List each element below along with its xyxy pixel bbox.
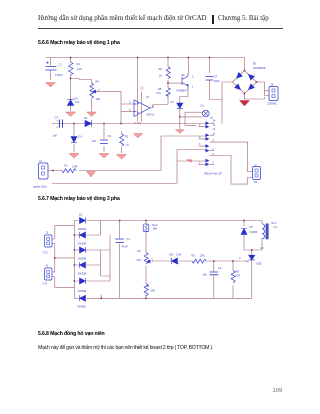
svg-text:DIODE: DIODE bbox=[78, 257, 86, 261]
svg-text:R2: R2 bbox=[125, 135, 129, 139]
svg-text:3: 3 bbox=[239, 256, 241, 260]
svg-text:R6: R6 bbox=[159, 67, 163, 71]
svg-text:470: 470 bbox=[236, 274, 241, 278]
svg-text:R2: R2 bbox=[192, 254, 196, 258]
svg-text:D7: D7 bbox=[250, 225, 254, 229]
svg-text:22K: 22K bbox=[200, 254, 205, 258]
svg-text:Q9: Q9 bbox=[181, 73, 185, 77]
svg-text:5: 5 bbox=[213, 162, 215, 165]
svg-text:470uF: 470uF bbox=[55, 73, 63, 77]
svg-text:220VAC: 220VAC bbox=[268, 102, 278, 106]
svg-text:CT2: CT2 bbox=[43, 251, 48, 255]
svg-text:RL1: RL1 bbox=[272, 221, 277, 225]
svg-text:J1: J1 bbox=[39, 159, 42, 163]
svg-text:W+5V: W+5V bbox=[134, 121, 141, 125]
svg-text:Tải: Tải bbox=[254, 180, 258, 184]
svg-text:J6: J6 bbox=[271, 83, 274, 87]
svg-text:CAU8000E: CAU8000E bbox=[253, 66, 266, 70]
svg-text:R5: R5 bbox=[158, 87, 162, 91]
svg-text:R4: R4 bbox=[137, 249, 141, 253]
svg-text:501: 501 bbox=[137, 258, 142, 262]
svg-text:F3: F3 bbox=[218, 266, 222, 270]
svg-text:3.3R: 3.3R bbox=[72, 165, 78, 169]
svg-text:CT1: CT1 bbox=[43, 282, 48, 286]
svg-text:C1: C1 bbox=[127, 237, 131, 241]
svg-text:U7: U7 bbox=[146, 95, 150, 99]
svg-text:D1: D1 bbox=[79, 135, 83, 139]
svg-text:10uF: 10uF bbox=[214, 79, 220, 83]
svg-text:D7: D7 bbox=[171, 100, 175, 104]
svg-text:1: 1 bbox=[192, 85, 194, 89]
svg-text:4uF: 4uF bbox=[92, 139, 97, 143]
svg-text:K942B07: K942B07 bbox=[177, 88, 188, 92]
svg-text:1m: 1m bbox=[159, 74, 163, 78]
svg-text:SCB: SCB bbox=[256, 262, 262, 266]
svg-text:23K: 23K bbox=[151, 289, 156, 293]
svg-text:nguồn 220v: nguồn 220v bbox=[33, 184, 47, 188]
svg-text:16K: 16K bbox=[152, 227, 157, 231]
svg-text:2.8V: 2.8V bbox=[176, 253, 182, 257]
svg-text:C3: C3 bbox=[108, 134, 112, 138]
svg-text:47uF: 47uF bbox=[122, 245, 128, 249]
svg-text:D4: D4 bbox=[74, 97, 78, 101]
svg-text:3: 3 bbox=[192, 75, 194, 79]
svg-text:9: 9 bbox=[199, 136, 201, 139]
svg-text:P1: P1 bbox=[65, 164, 69, 168]
svg-text:LS: LS bbox=[274, 225, 277, 229]
svg-text:DIODE: DIODE bbox=[78, 272, 86, 276]
svg-text:DIODE: DIODE bbox=[78, 289, 86, 293]
svg-text:J2: J2 bbox=[46, 231, 49, 235]
svg-text:DIODE: DIODE bbox=[78, 305, 86, 309]
svg-text:1n4: 1n4 bbox=[75, 100, 80, 104]
svg-text:DIODE: DIODE bbox=[78, 227, 86, 231]
svg-text:14: 14 bbox=[213, 120, 216, 123]
svg-text:R1: R1 bbox=[77, 62, 81, 66]
svg-text:1uF: 1uF bbox=[53, 134, 58, 138]
svg-text:DIODE: DIODE bbox=[78, 242, 86, 246]
svg-text:U1: U1 bbox=[201, 104, 205, 108]
svg-text:RuA: RuA bbox=[152, 223, 157, 227]
svg-text:C4: C4 bbox=[214, 75, 218, 79]
svg-text:D1: D1 bbox=[79, 213, 83, 217]
svg-text:4.7k: 4.7k bbox=[156, 91, 162, 95]
svg-text:11: 11 bbox=[213, 133, 216, 136]
svg-text:L8: L8 bbox=[261, 246, 264, 250]
svg-text:1.2K: 1.2K bbox=[77, 67, 83, 71]
svg-text:D1000: D1000 bbox=[250, 230, 258, 234]
svg-text:2: 2 bbox=[199, 161, 201, 164]
svg-text:D6: D6 bbox=[253, 62, 257, 66]
svg-text:10u: 10u bbox=[203, 273, 208, 277]
svg-text:4: 4 bbox=[199, 124, 201, 127]
svg-text:RELAY-4x1-2P: RELAY-4x1-2P bbox=[205, 172, 222, 176]
svg-text:1k: 1k bbox=[126, 143, 129, 147]
svg-text:C1: C1 bbox=[59, 63, 63, 67]
svg-text:R4: R4 bbox=[96, 80, 100, 84]
svg-text:3: 3 bbox=[199, 143, 201, 146]
svg-text:J1: J1 bbox=[46, 264, 49, 268]
svg-text:R3: R3 bbox=[236, 270, 240, 274]
svg-text:D2: D2 bbox=[84, 116, 88, 120]
svg-text:C2: C2 bbox=[55, 116, 59, 120]
svg-text:12: 12 bbox=[213, 128, 216, 131]
svg-text:7: 7 bbox=[213, 148, 215, 151]
svg-text:10K: 10K bbox=[96, 97, 101, 101]
svg-text:D8: D8 bbox=[170, 253, 174, 257]
svg-text:R1: R1 bbox=[146, 284, 150, 288]
svg-text:AD7x1: AD7x1 bbox=[147, 113, 155, 117]
svg-text:13: 13 bbox=[213, 124, 216, 127]
